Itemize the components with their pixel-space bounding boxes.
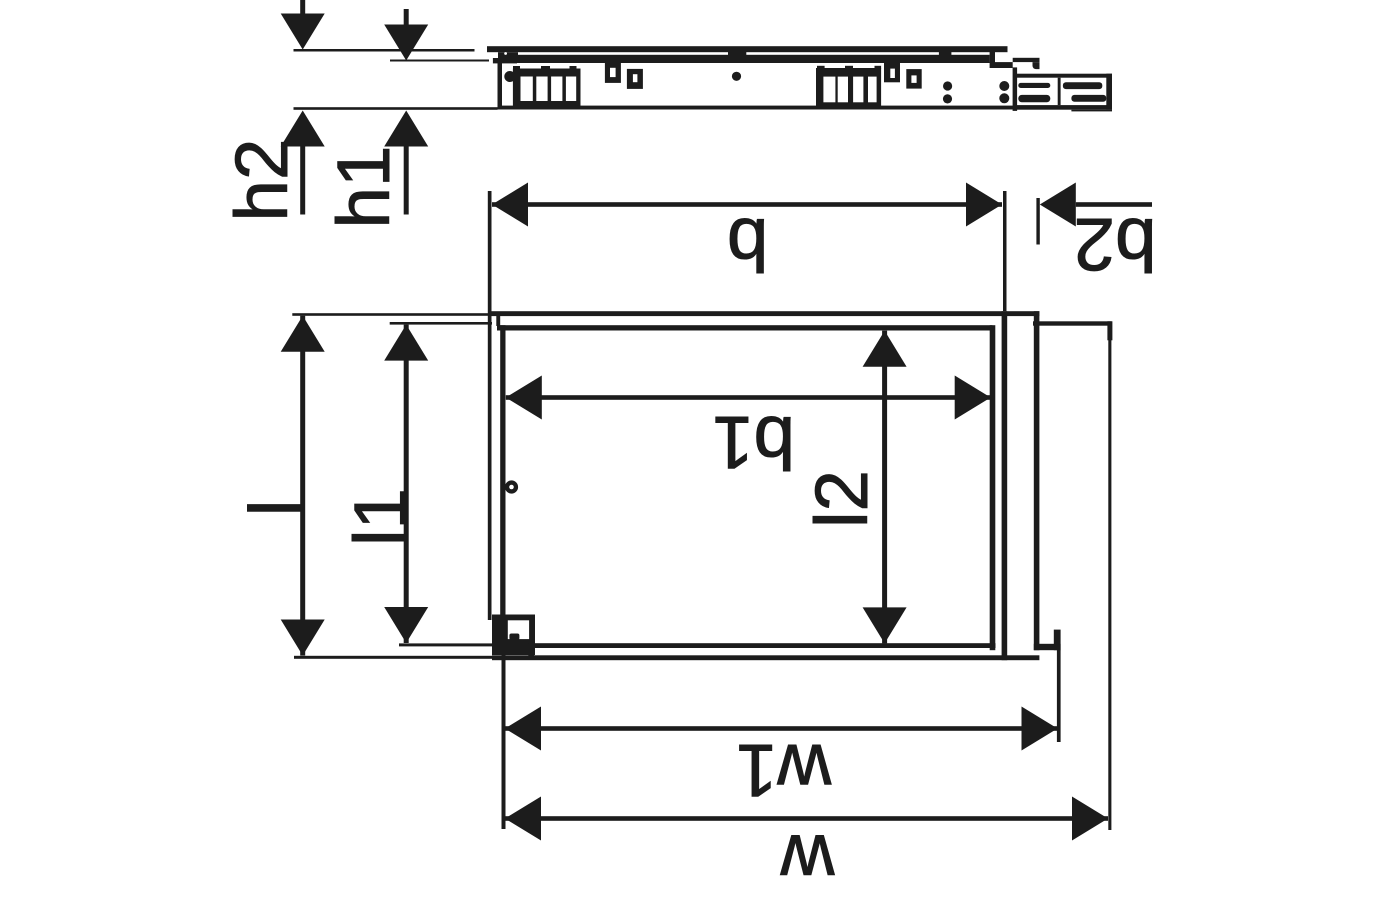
front bar bottom hook xyxy=(1034,644,1061,650)
svg-text:l1: l1 xyxy=(339,488,422,546)
svg-text:w: w xyxy=(780,820,835,900)
ladder 1 xyxy=(513,69,581,107)
clip square 2 xyxy=(627,69,643,89)
front bar left wall xyxy=(1002,311,1008,660)
w1 right extension xyxy=(1057,650,1061,742)
svg-text:b1: b1 xyxy=(712,401,795,484)
b2 dimension xyxy=(1036,198,1039,245)
inner left edge xyxy=(500,325,505,615)
connector bars xyxy=(1018,83,1050,88)
hook tab xyxy=(884,63,900,82)
svg-text:h1: h1 xyxy=(322,146,405,229)
dots pair 1 xyxy=(943,81,952,90)
svg-text:l2: l2 xyxy=(800,470,883,528)
rail left wide block xyxy=(493,58,517,63)
left lower extension xyxy=(502,655,506,829)
slit bridge 1 xyxy=(728,50,746,56)
connector outline xyxy=(1015,74,1112,78)
l1 dimension xyxy=(390,322,492,325)
svg-text:h2: h2 xyxy=(220,139,303,222)
rail top bar A xyxy=(487,46,1008,52)
b1 dimension xyxy=(506,395,991,400)
outer top edge xyxy=(488,311,1039,316)
inner top edge xyxy=(497,325,992,330)
svg-text:w1: w1 xyxy=(736,729,832,812)
ring xyxy=(505,480,518,493)
right junction slit fill xyxy=(990,50,995,63)
body left edge xyxy=(498,63,503,110)
right end hook xyxy=(1033,62,1040,69)
h2 dimension xyxy=(300,0,305,15)
svg-text:b: b xyxy=(727,203,768,286)
clip square 1 xyxy=(605,63,621,83)
body bottom edge xyxy=(498,106,1018,110)
rivet dot xyxy=(504,71,515,82)
w extension jog xyxy=(1033,321,1112,325)
center dot xyxy=(732,72,741,81)
svg-text:l: l xyxy=(235,500,318,517)
w1 dimension xyxy=(505,726,1058,731)
clip square 3 xyxy=(906,69,921,89)
inner right wall xyxy=(990,325,996,650)
rail bar B xyxy=(517,55,990,63)
w dimension xyxy=(505,816,1108,821)
slit bridge 2 xyxy=(939,50,952,56)
rail left under-block xyxy=(498,52,518,58)
outer bottom edge xyxy=(492,655,1039,660)
l2 dimension xyxy=(882,331,887,644)
dots pair 2 xyxy=(999,81,1009,91)
ladder 2 xyxy=(816,68,881,106)
front bar right wall xyxy=(1034,311,1040,650)
connector left wall xyxy=(1013,67,1018,111)
h1 dimension xyxy=(404,9,409,26)
l dimension xyxy=(292,313,488,316)
right upper bar xyxy=(1013,58,1040,62)
corner block xyxy=(492,615,535,656)
svg-text:b2: b2 xyxy=(1074,203,1157,286)
right wide step xyxy=(990,62,1013,68)
inner bottom edge xyxy=(528,643,995,648)
